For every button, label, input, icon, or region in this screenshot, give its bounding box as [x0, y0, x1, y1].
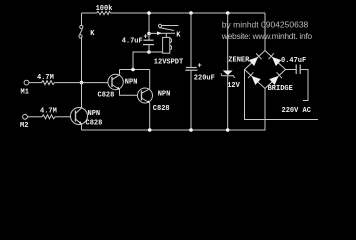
bridge diode D4 (bottom-left) — [248, 72, 261, 85]
node A junction — [80, 81, 84, 85]
capacitor C3 0.47uF — [296, 65, 300, 75]
wire node F to cap — [148, 34, 150, 41]
wire M1 to R2 — [29, 82, 42, 84]
svg-text:C828: C828 — [153, 105, 170, 113]
svg-text:100k: 100k — [96, 5, 113, 13]
svg-text:NPN: NPN — [88, 110, 101, 118]
relay contact arrow — [157, 31, 162, 35]
transistor Q3 C828 — [138, 88, 153, 103]
wire R2 to Q2 base — [55, 82, 109, 84]
svg-text:C828: C828 — [98, 92, 115, 100]
wire C3 to AC terminal — [300, 70, 308, 101]
terminal M2 — [23, 114, 28, 119]
wire contact to coil stub — [165, 33, 167, 37]
wire R3 to Q1 base — [55, 116, 71, 118]
wire top rail corner to bridge — [264, 13, 266, 51]
wire switch to node A — [81, 38, 83, 83]
svg-text:BRIDGE: BRIDGE — [268, 85, 293, 93]
node J junction — [226, 128, 230, 132]
relay contact common wire — [149, 32, 175, 34]
terminal M1 — [24, 80, 29, 85]
svg-text:220V AC: 220V AC — [282, 107, 311, 115]
wire bottom rail — [82, 129, 266, 131]
wire cap to node C — [148, 45, 150, 52]
switch K — [79, 25, 83, 38]
zener diode D1 — [221, 71, 235, 79]
wire collector net horizontal — [120, 69, 150, 71]
transistor Q2 C828 — [108, 74, 123, 90]
svg-text:M2: M2 — [20, 122, 28, 130]
node E junction — [147, 11, 151, 15]
svg-text:by minhdt 0904250638: by minhdt 0904250638 — [222, 20, 309, 30]
relay coil — [163, 37, 172, 53]
capacitor C2 220uF — [185, 68, 197, 71]
wire 220uF to bottom rail — [190, 70, 192, 130]
wire node A to Q1 collector — [81, 83, 83, 108]
svg-text:4.7M: 4.7M — [37, 74, 54, 82]
node G junction — [189, 11, 193, 15]
svg-text:4.7uF: 4.7uF — [122, 38, 143, 46]
node I junction — [226, 11, 230, 15]
wire bridge left to AC — [245, 70, 319, 120]
svg-text:220uF: 220uF — [194, 75, 215, 83]
resistor R1 100k — [97, 11, 111, 14]
wire bridge bottom to rail — [263, 89, 265, 131]
relay fixed contact — [158, 24, 178, 27]
node D junction — [148, 128, 152, 132]
resistor R2 4.7M — [42, 81, 55, 85]
wire 220uF rail top — [190, 13, 192, 67]
wire Q2 emitter to Q3 base — [120, 90, 139, 96]
wire Q2 collector up — [119, 70, 121, 75]
svg-text:M1: M1 — [21, 89, 29, 97]
wire relay rail top — [148, 13, 150, 34]
svg-text:4.7M: 4.7M — [40, 108, 57, 116]
svg-text:12VSPDT: 12VSPDT — [154, 58, 183, 66]
capacitor C1 4.7uF — [143, 40, 154, 44]
resistor R3 4.7M — [42, 115, 55, 119]
wire node B up to corner — [133, 52, 149, 70]
transistor Q1 C828 — [71, 108, 88, 125]
svg-text:ZENER: ZENER — [228, 57, 250, 65]
bridge diode D5 (bottom-right) — [269, 72, 282, 85]
relay armature — [159, 28, 174, 31]
svg-text:+: + — [198, 63, 202, 71]
wire zener to bottom rail — [227, 76, 229, 130]
wire node C to coil — [149, 51, 163, 53]
svg-text:12V: 12V — [227, 82, 240, 90]
node C junction — [147, 50, 151, 54]
svg-text:C828: C828 — [86, 120, 103, 128]
svg-text:NPN: NPN — [125, 78, 138, 86]
wire top rail — [82, 12, 266, 14]
wire M2 to R3 — [28, 116, 43, 118]
node H junction — [189, 128, 193, 132]
wire zener rail top — [227, 13, 229, 71]
wire switch drop — [81, 13, 83, 25]
svg-text:K: K — [176, 32, 181, 40]
wire Q3 collector up — [149, 70, 151, 89]
wire bridge right to C3 — [286, 69, 297, 71]
svg-text:NPN: NPN — [158, 90, 171, 98]
svg-text:0.47uF: 0.47uF — [281, 57, 306, 65]
node F junction — [147, 32, 151, 36]
svg-text:+: + — [144, 33, 148, 41]
bridge diode D3 (top-right) — [269, 53, 282, 66]
wire Q3 emitter to bottom rail — [149, 103, 151, 130]
node B junction — [131, 68, 135, 72]
svg-text:website: www.minhdt. info: website: www.minhdt. info — [221, 31, 313, 41]
bridge rectifier — [245, 51, 286, 89]
svg-text:K: K — [90, 30, 95, 38]
wire Q1 emitter to bottom rail — [81, 124, 83, 130]
bridge diode D2 (top-left) — [249, 53, 262, 66]
